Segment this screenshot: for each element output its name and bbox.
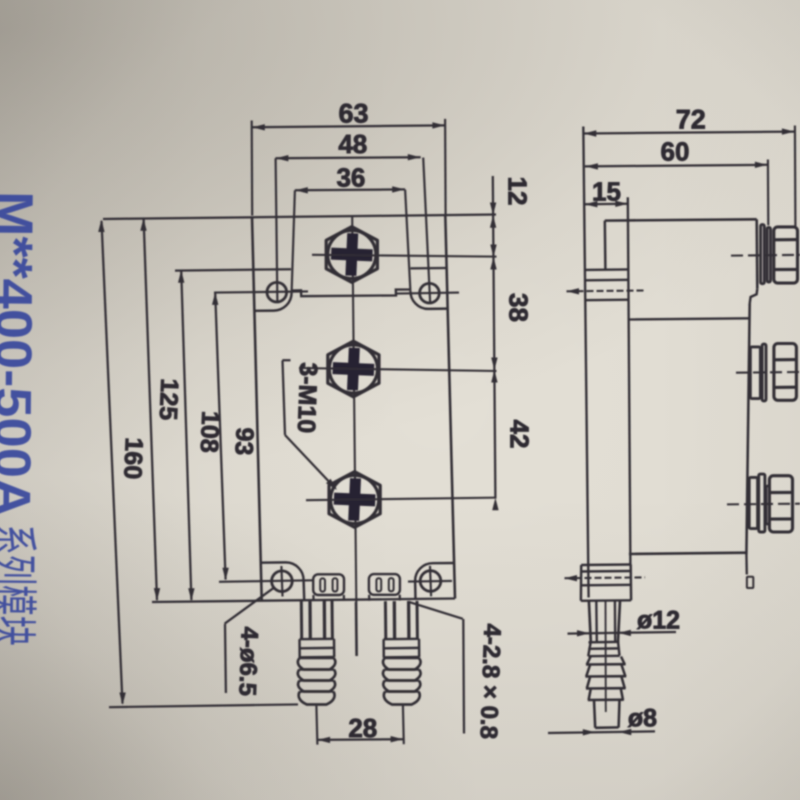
svg-text:4-ø6.5: 4-ø6.5	[233, 626, 262, 696]
svg-text:28: 28	[348, 713, 377, 743]
svg-text:125: 125	[154, 378, 184, 421]
svg-text:160: 160	[118, 437, 148, 480]
svg-text:93: 93	[229, 427, 258, 456]
svg-text:M**400-500A: M**400-500A	[0, 191, 43, 517]
svg-text:3-M10: 3-M10	[292, 362, 322, 434]
svg-text:72: 72	[676, 105, 706, 135]
svg-text:ø12: ø12	[637, 607, 680, 635]
svg-text:63: 63	[338, 99, 368, 129]
svg-text:4-2.8 × 0.8: 4-2.8 × 0.8	[474, 623, 505, 739]
svg-text:12: 12	[503, 177, 533, 206]
svg-text:48: 48	[338, 129, 367, 159]
svg-text:60: 60	[661, 137, 690, 167]
svg-text:15: 15	[592, 177, 621, 207]
svg-text:38: 38	[504, 293, 534, 322]
svg-text:系列模块: 系列模块	[0, 524, 39, 646]
svg-text:42: 42	[505, 420, 535, 449]
svg-text:36: 36	[336, 163, 365, 193]
svg-text:ø8: ø8	[628, 705, 657, 733]
